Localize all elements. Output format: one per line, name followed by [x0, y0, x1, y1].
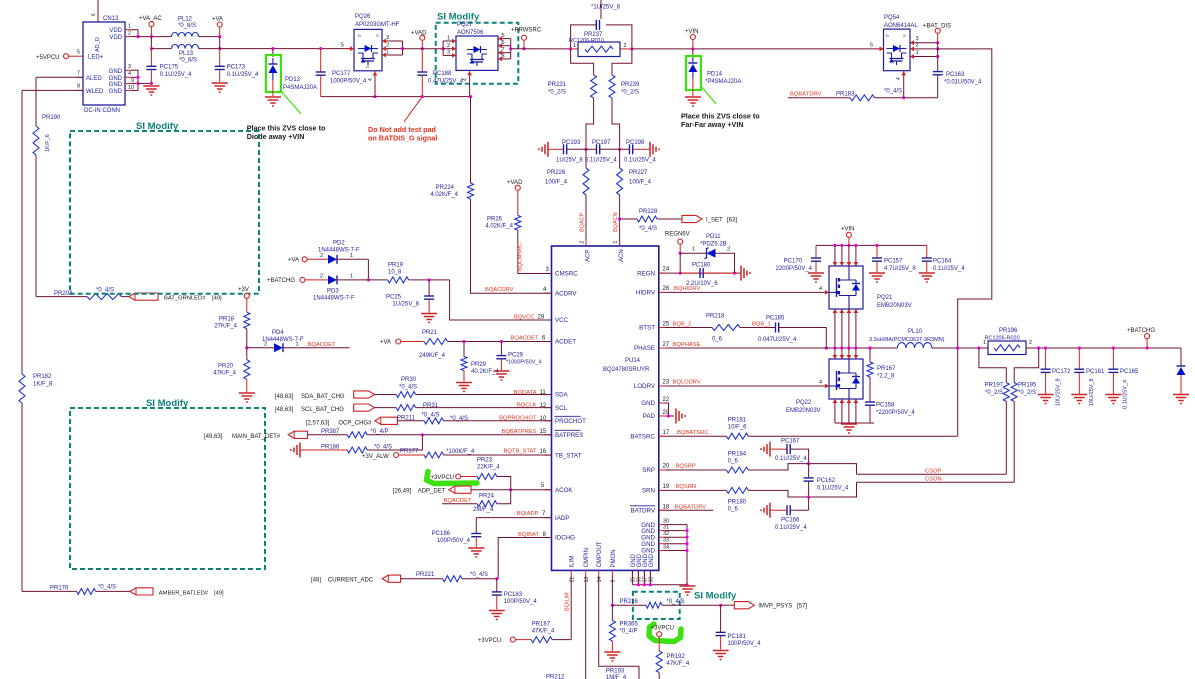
svg-text:0.1U/25V_4: 0.1U/25V_4	[585, 158, 617, 164]
svg-text:1: 1	[613, 241, 619, 244]
resistor PR224 4.02K/F_4	[430, 97, 473, 199]
wire CMPOUT column	[599, 576, 639, 679]
svg-text:PC181: PC181	[728, 634, 747, 640]
svg-text:SI Modify: SI Modify	[136, 121, 179, 132]
ground PQ22 source	[841, 424, 857, 433]
svg-text:*0_4/S: *0_4/S	[422, 412, 440, 418]
svg-text:PC183: PC183	[504, 592, 523, 598]
svg-text:*1U/25V_8: *1U/25V_8	[591, 5, 621, 11]
svg-text:BQACP: BQACP	[580, 212, 586, 232]
svg-text:PC157: PC157	[884, 259, 903, 265]
capacitor PC188 0.47U/25V_4	[417, 49, 463, 97]
wire battery rail	[1026, 346, 1181, 349]
svg-text:PR30: PR30	[401, 377, 417, 383]
svg-text:[49]: [49]	[214, 590, 224, 596]
svg-text:BQLODRV: BQLODRV	[673, 380, 701, 386]
svg-text:0.1U/25V_4: 0.1U/25V_4	[1123, 380, 1129, 409]
svg-text:*0_4/S: *0_4/S	[884, 89, 902, 95]
power +VA (PD2)	[288, 257, 328, 264]
svg-text:PR226: PR226	[547, 170, 566, 176]
ground under PD13	[265, 97, 281, 106]
svg-text:5: 5	[341, 43, 344, 49]
svg-text:VDD: VDD	[109, 35, 122, 41]
svg-text:10/F_6: 10/F_6	[728, 425, 747, 431]
resistor PR211 *0_4/S	[397, 415, 552, 424]
resistor PR221 *0_4/S	[416, 572, 498, 582]
capacitor PC180 2.2U/10V_6	[680, 263, 734, 288]
wire to PR237	[511, 48, 571, 50]
wire LODRV to PQ22 gate	[659, 380, 829, 387]
svg-text:CMPIN: CMPIN	[584, 548, 590, 567]
svg-text:D: D	[886, 33, 889, 38]
svg-text:1K/F_8: 1K/F_8	[33, 382, 53, 388]
wire IDCHG pin 8	[498, 532, 551, 579]
capacitor PC25 1U/25V_8	[386, 280, 434, 313]
svg-text:PR177: PR177	[400, 448, 419, 454]
svg-text:PU14: PU14	[625, 358, 641, 364]
svg-text:PC29: PC29	[508, 353, 524, 359]
svg-text:MAIN_BAT_DET#: MAIN_BAT_DET#	[232, 434, 281, 440]
svg-text:2: 2	[624, 43, 627, 49]
svg-text:BQBATDRV: BQBATDRV	[790, 92, 821, 98]
note do not add test pad	[368, 97, 437, 143]
svg-text:1N4448WS-7-F: 1N4448WS-7-F	[262, 337, 304, 343]
power +VIN (rail)	[841, 227, 855, 246]
resistor PR190 1K/F_6	[33, 115, 61, 155]
svg-text:PC177: PC177	[332, 71, 351, 77]
svg-text:+5VPCU: +5VPCU	[36, 55, 60, 61]
svg-text:2: 2	[386, 42, 389, 48]
wire main AC rail to PQ26	[220, 47, 354, 50]
svg-text:PR193: PR193	[606, 669, 625, 675]
resistor PR195 *0_2/S	[1011, 348, 1038, 402]
svg-text:SI Modify: SI Modify	[146, 398, 189, 409]
svg-text:BATSRC: BATSRC	[630, 433, 655, 440]
svg-text:PD3: PD3	[327, 289, 339, 295]
ground under PC173	[212, 83, 228, 92]
svg-text:PC170: PC170	[784, 259, 803, 265]
resistor PR18 27K/F_4	[214, 312, 249, 349]
svg-text:PR227: PR227	[629, 170, 648, 176]
resistor PR237 RC1206-R010	[569, 32, 634, 57]
svg-text:AON7506: AON7506	[457, 30, 484, 36]
svg-text:+3VPCU: +3VPCU	[651, 626, 675, 632]
svg-text:PC162: PC162	[817, 478, 836, 484]
wire PR190 to BAT_GRNLED row	[35, 155, 37, 297]
svg-text:11: 11	[540, 390, 547, 396]
svg-text:2200P/50V_4: 2200P/50V_4	[776, 266, 813, 272]
capacitor PC157 4.7U/25V_8	[872, 245, 916, 272]
svg-text:0.1U/25V_4: 0.1U/25V_4	[227, 72, 259, 78]
svg-text:SCL: SCL	[555, 405, 568, 412]
resistor PR177 *100K/F_4	[400, 448, 552, 458]
svg-text:+VIN: +VIN	[841, 227, 855, 233]
capacitor PC186 100P/50V_4	[432, 531, 482, 547]
power +BATCHG (PD3)	[267, 277, 328, 284]
svg-text:SCL_BAT_CHG: SCL_BAT_CHG	[301, 407, 344, 413]
svg-text:1: 1	[983, 340, 986, 346]
svg-text:PC186: PC186	[432, 531, 451, 537]
capacitor PC177 1000P/50V_4	[316, 47, 367, 97]
svg-text:2: 2	[320, 253, 323, 259]
svg-text:PC193: PC193	[562, 140, 581, 146]
svg-text:PD11: PD11	[706, 234, 721, 240]
svg-text:+VAD: +VAD	[411, 31, 427, 37]
svg-text:D: D	[358, 33, 361, 38]
wire PHASE pin 27	[659, 342, 835, 348]
svg-text:Diode away +VIN: Diode away +VIN	[247, 132, 305, 141]
svg-text:LED+: LED+	[88, 55, 104, 61]
svg-text:249K/F_4: 249K/F_4	[419, 353, 446, 359]
svg-text:ACOK: ACOK	[555, 487, 573, 494]
svg-text:16: 16	[540, 449, 547, 455]
svg-text:PR231: PR231	[548, 82, 567, 88]
power +VA_AC	[139, 16, 162, 37]
svg-text:PC197: PC197	[592, 140, 611, 146]
highlight +3VPCU (PR192)	[649, 624, 681, 642]
svg-text:1N4448WS-7-F: 1N4448WS-7-F	[313, 295, 355, 301]
svg-text:3: 3	[447, 50, 450, 56]
svg-text:ACN: ACN	[619, 249, 625, 262]
svg-text:*2200P/50V_4: *2200P/50V_4	[876, 410, 915, 416]
ground under PC29	[493, 371, 509, 380]
capacitor *1U/25V_8 (top)	[571, 0, 632, 49]
svg-text:PC164: PC164	[933, 259, 952, 265]
wire IADP pin 7	[476, 511, 551, 534]
svg-text:BQIBAT: BQIBAT	[518, 532, 539, 538]
ground under PR29	[456, 383, 472, 392]
svg-text:10_8: 10_8	[388, 269, 402, 275]
svg-text:BATPRES: BATPRES	[555, 432, 583, 439]
wire PQ54 to battery node	[938, 49, 992, 347]
svg-text:PR195: PR195	[1018, 383, 1037, 389]
ground under PC183	[489, 611, 505, 620]
svg-text:PQ22: PQ22	[796, 400, 812, 406]
svg-text:100P/50V_4: 100P/50V_4	[437, 538, 471, 544]
svg-text:IMVP_PSYS: IMVP_PSYS	[758, 604, 792, 610]
svg-text:*100K/F_4: *100K/F_4	[446, 449, 475, 455]
svg-text:*0_4/S: *0_4/S	[399, 384, 417, 390]
svg-text:PR196: PR196	[999, 328, 1018, 334]
capacitor PC164 0.1U/25V_4	[922, 245, 966, 272]
svg-text:BQHIDRV: BQHIDRV	[674, 286, 700, 292]
svg-text:PR216: PR216	[620, 599, 639, 605]
resistor PR196 RC1206-R020	[983, 328, 1032, 355]
power +3V	[238, 287, 249, 312]
svg-text:BQ24780SRUYR: BQ24780SRUYR	[603, 367, 650, 373]
svg-text:*0.01U/50V_4: *0.01U/50V_4	[944, 80, 982, 86]
op-amp U1 charger IC PU14 BQ24780SRUYR	[545, 240, 666, 582]
svg-text:ACDRV: ACDRV	[555, 290, 577, 297]
svg-text:PR180: PR180	[728, 500, 747, 506]
svg-text:5: 5	[77, 50, 80, 56]
svg-text:2: 2	[916, 43, 919, 49]
svg-text:REGN: REGN	[637, 270, 655, 277]
svg-text:SDA: SDA	[555, 392, 569, 399]
svg-text:TB_STAT: TB_STAT	[555, 452, 581, 459]
svg-text:PR23: PR23	[477, 458, 493, 464]
ground IC GND pins	[680, 586, 696, 595]
svg-text:14: 14	[597, 577, 603, 583]
svg-text:0.1U/25V_4: 0.1U/25V_4	[775, 525, 807, 531]
svg-text:1000P/50V_4: 1000P/50V_4	[330, 78, 367, 84]
offpage SCL_BAT_CHG [48,63]	[275, 404, 396, 413]
svg-text:PMON: PMON	[611, 549, 617, 567]
svg-text:ACP: ACP	[586, 250, 592, 262]
svg-text:1: 1	[916, 50, 919, 56]
ground under PC157	[869, 273, 885, 282]
svg-text:+BATCHG: +BATCHG	[1127, 328, 1155, 334]
svg-text:[49]: [49]	[212, 296, 222, 302]
svg-text:3: 3	[916, 36, 919, 42]
SI Modify box 2	[70, 398, 265, 569]
svg-text:BQCMSRC: BQCMSRC	[518, 243, 524, 271]
capacitor PC29 *1000P/50V_4	[496, 342, 541, 371]
svg-text:1: 1	[573, 43, 576, 49]
inductor PL10 3.3uH/8A	[869, 329, 945, 348]
capacitor PC167 0.1U/25V_4	[761, 439, 810, 466]
wire to VCC pin 28	[450, 280, 552, 321]
svg-text:5: 5	[502, 33, 505, 39]
svg-text:PR187: PR187	[532, 622, 551, 628]
svg-text:PR192: PR192	[667, 654, 686, 660]
svg-text:20: 20	[663, 464, 670, 470]
svg-text:BQBATDRV: BQBATDRV	[675, 504, 706, 510]
capacitor PC170 2200P/50V_4	[776, 245, 821, 272]
svg-text:15: 15	[540, 429, 547, 435]
svg-text:AMBER_BATLED#: AMBER_BATLED#	[159, 590, 209, 596]
bracket GND pins 3-10	[131, 70, 153, 90]
svg-text:GND: GND	[109, 69, 123, 75]
wire node BQACP	[580, 195, 587, 246]
svg-text:PR182: PR182	[33, 374, 52, 380]
svg-text:OCP_CHG#: OCP_CHG#	[338, 420, 372, 426]
svg-text:4: 4	[368, 78, 374, 81]
svg-text:GND: GND	[109, 89, 123, 95]
svg-text:on BATDIS_G signal: on BATDIS_G signal	[368, 134, 437, 143]
svg-text:[48,63]: [48,63]	[275, 407, 294, 413]
wire node BQCMSRC	[518, 230, 552, 273]
svg-text:1K/F_6: 1K/F_6	[45, 134, 51, 152]
diode PD3 1N4448WS-7-F	[313, 273, 370, 301]
svg-text:PR212: PR212	[546, 675, 565, 679]
offpage ADP_DET [26,49]	[393, 483, 552, 495]
offpage MAIN_BAT_DET# [49,63]	[204, 431, 347, 440]
svg-text:PC166: PC166	[781, 518, 800, 524]
power +PRWSRC	[511, 28, 542, 51]
svg-text:4: 4	[128, 71, 131, 77]
svg-text:PD4: PD4	[272, 330, 284, 336]
resistor PR31 *0_4/S	[396, 403, 551, 419]
capacitor PC158 *2200P/50V_4	[865, 377, 915, 423]
capacitor PC181 100P/50V_4	[716, 605, 762, 649]
label PR212	[546, 675, 565, 679]
svg-text:VDD: VDD	[109, 28, 122, 34]
svg-text:G: G	[366, 64, 369, 69]
svg-text:+VAD: +VAD	[507, 180, 523, 186]
offpage OCP_CHG# [2,57,63]	[306, 417, 424, 426]
wire ACDRV pin 4	[471, 199, 552, 293]
wire PQ27 gate pin 4	[463, 70, 473, 98]
svg-text:BQACDET: BQACDET	[308, 342, 336, 348]
svg-text:PC172: PC172	[1052, 369, 1071, 375]
svg-text:BQILIM: BQILIM	[565, 592, 571, 611]
wire to PQ27	[403, 47, 445, 50]
resistor PR182 1K/F_8	[19, 374, 53, 403]
svg-text:0.047U/25V_4: 0.047U/25V_4	[758, 337, 797, 343]
svg-text:CURRENT_ADC: CURRENT_ADC	[328, 577, 374, 583]
svg-text:PC158: PC158	[876, 403, 895, 409]
capacitor PC166 0.1U/25V_4	[761, 497, 809, 531]
svg-text:PC198: PC198	[626, 140, 645, 146]
svg-text:WLED: WLED	[86, 89, 104, 95]
svg-text:PD2: PD2	[333, 241, 345, 247]
svg-text:18: 18	[663, 504, 670, 510]
svg-text:AP0203GMT-HF: AP0203GMT-HF	[355, 22, 400, 28]
bracket GND pins 30-34	[663, 518, 689, 586]
wire CSON	[857, 402, 1015, 483]
svg-text:BQACDET: BQACDET	[510, 336, 538, 342]
svg-text:5: 5	[870, 43, 873, 49]
svg-text:1: 1	[350, 273, 353, 279]
ground left of PC193	[539, 142, 548, 157]
transistor PQ21 EMB20N03V	[819, 245, 912, 348]
power +3VPCU (PR192)	[651, 626, 675, 651]
svg-text:*P4SMAJ20A: *P4SMAJ20A	[705, 79, 741, 85]
resistor PR227 100/F_4	[617, 149, 652, 195]
svg-text:AD_D: AD_D	[95, 37, 101, 52]
SI Modify box 1	[70, 121, 259, 294]
svg-text:EMB20N03V: EMB20N03V	[786, 408, 821, 414]
svg-text:1: 1	[447, 36, 450, 42]
svg-text:PR20: PR20	[218, 364, 234, 370]
svg-text:0_6: 0_6	[728, 507, 739, 513]
svg-text:CMSRC: CMSRC	[555, 271, 578, 278]
svg-text:31: 31	[663, 524, 669, 530]
svg-text:PR221: PR221	[416, 572, 435, 578]
capacitor PC175 0.1U/25V_4	[146, 65, 192, 86]
wire PR231 branch	[571, 49, 594, 75]
svg-text:PR228: PR228	[639, 209, 658, 215]
wire CMPIN column	[585, 576, 587, 679]
svg-text:+VA_AC: +VA_AC	[139, 16, 162, 22]
svg-text:10U/25V_8: 10U/25V_8	[1089, 378, 1095, 406]
svg-text:PR18: PR18	[219, 317, 235, 323]
power +VA (ACDET)	[380, 339, 424, 346]
svg-text:0.1U/25V_4: 0.1U/25V_4	[775, 456, 807, 462]
svg-text:PAD: PAD	[643, 413, 656, 420]
ground right of PC180	[735, 266, 751, 281]
svg-text:PC188: PC188	[433, 71, 452, 77]
svg-text:*PDZ6.2B: *PDZ6.2B	[700, 242, 727, 248]
capacitor PC163 *0.01U/50V_4	[933, 43, 982, 98]
svg-text:PR365: PR365	[620, 622, 639, 628]
svg-text:PR184: PR184	[728, 452, 747, 458]
power +VA	[212, 17, 223, 49]
net BATDRV stub	[659, 504, 713, 510]
svg-text:CN13: CN13	[103, 16, 119, 22]
ground right of PC198	[650, 142, 659, 157]
resistor PR183 *0_4/S	[836, 89, 938, 101]
svg-text:1: 1	[692, 247, 695, 253]
svg-text:PR186: PR186	[321, 444, 340, 450]
svg-text:0.1U/25V_4: 0.1U/25V_4	[624, 158, 656, 164]
wire ALED to PR190	[36, 77, 83, 126]
power REGN6V	[665, 232, 690, 274]
svg-text:PR387: PR387	[321, 429, 340, 435]
svg-text:4: 4	[463, 78, 469, 81]
svg-text:+VA: +VA	[380, 340, 391, 346]
svg-text:HIDRV: HIDRV	[636, 290, 656, 297]
pins PQ54 3-2-1	[910, 36, 939, 59]
resistor PR197 *0_2/S	[979, 348, 1009, 402]
power +VAD (CMSRC)	[507, 180, 523, 215]
svg-text:*0_8/S: *0_8/S	[178, 23, 196, 29]
svg-text:+3V_ALW: +3V_ALW	[362, 454, 389, 460]
resistor PR29 40.2K/F_4	[461, 342, 499, 382]
svg-text:BQACDET: BQACDET	[444, 498, 472, 504]
wire PL10 to PR196	[932, 346, 988, 349]
svg-text:100P/50V_4: 100P/50V_4	[504, 599, 538, 605]
svg-text:EMB20N03V: EMB20N03V	[877, 303, 912, 309]
svg-text:+PRWSRC: +PRWSRC	[511, 28, 542, 34]
svg-text:*0_4/S: *0_4/S	[667, 599, 685, 605]
svg-text:SRP: SRP	[642, 467, 655, 474]
svg-text:1: 1	[128, 24, 131, 30]
label PR193 1M/F_4	[606, 669, 627, 679]
wire switch node rail	[826, 346, 897, 349]
ground under PC25	[421, 314, 437, 323]
svg-text:SI Modify: SI Modify	[437, 12, 480, 23]
svg-text:4.7U/25V_8: 4.7U/25V_8	[884, 266, 916, 272]
capacitor PC173 0.1U/25V_4	[215, 49, 259, 82]
svg-text:7: 7	[77, 71, 80, 77]
svg-text:2: 2	[727, 247, 730, 253]
resistor PR167 *2.2_8	[867, 348, 896, 380]
highlight +3VPCU (PR23)	[427, 472, 478, 484]
svg-text:PC185: PC185	[766, 316, 785, 322]
svg-text:1: 1	[386, 50, 389, 56]
svg-text:34: 34	[663, 544, 669, 550]
SI Modify box 4	[633, 591, 737, 620]
svg-text:PC167: PC167	[781, 439, 800, 445]
capacitor PC193 1U/25V_8	[548, 140, 586, 164]
svg-text:0_6: 0_6	[728, 459, 739, 465]
svg-text:*0_2/S: *0_2/S	[1018, 390, 1036, 396]
svg-text:SRN: SRN	[642, 488, 655, 495]
svg-text:VCC: VCC	[555, 317, 569, 324]
svg-text:PR19: PR19	[388, 263, 404, 269]
svg-text:I_SET: I_SET	[706, 218, 723, 224]
resistor PR181 10/F_6 (BATSRC)	[659, 348, 958, 439]
svg-text:BQB_1: BQB_1	[752, 321, 771, 327]
svg-text:*0_2/S: *0_2/S	[548, 90, 566, 96]
offpage I_SET [63]	[682, 215, 737, 223]
wire HIDRV to PQ21 gate	[659, 286, 829, 292]
svg-text:[57]: [57]	[797, 604, 807, 610]
svg-text:+BATCHG: +BATCHG	[267, 278, 295, 284]
svg-text:PC161: PC161	[1086, 369, 1105, 375]
svg-text:1: 1	[350, 253, 353, 259]
svg-text:*0_2/S: *0_2/S	[985, 390, 1003, 396]
wire PR239 to cap row	[612, 98, 621, 151]
svg-text:ALED: ALED	[86, 76, 102, 82]
svg-text:BQCLK: BQCLK	[517, 403, 537, 409]
wire BATDIS_G rail	[321, 95, 471, 98]
svg-text:PD13: PD13	[285, 77, 301, 83]
inductor PL12 *0_8/S	[172, 17, 199, 37]
svg-text:9: 9	[611, 579, 617, 582]
